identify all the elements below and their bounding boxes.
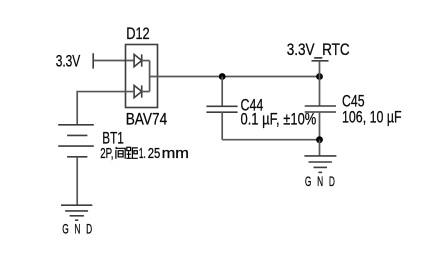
wire main bus to 3.3V_RTC node [150,76,320,78]
label GND (left) [62,222,98,236]
node junction at C45 top [316,73,323,80]
wire bottom bus C44 to C45 [222,139,319,141]
svg-text:BAV74: BAV74 [126,109,168,128]
wire cathode junction vertical [149,61,151,92]
capacitor C44 bottom lead [221,112,223,140]
component box D12 [126,45,158,108]
node junction at C44 top [219,73,226,80]
power port 3.3V bar [92,53,94,68]
capacitor C44 top lead [221,77,223,107]
svg-text:D12: D12 [126,24,150,43]
diode D12-A (top) [134,54,142,66]
wire diode B cathode [142,91,150,93]
power symbol 3.3V_RTC bar [312,60,329,62]
ground symbol (right) [304,156,336,173]
battery BT1 [58,125,94,157]
wire down to ground (right) [319,140,321,156]
wire 3.3V_RTC down to bus [319,61,321,106]
value BT1 pitch suffix [139,145,189,162]
svg-text:25: 25 [148,145,161,162]
svg-text:1.: 1. [139,145,146,162]
svg-text:GND: GND [305,175,341,189]
ground symbol (left) [61,205,92,220]
capacitor C45 plates [305,106,336,112]
svg-text:GND: GND [62,222,98,236]
svg-text:106, 10 µF: 106, 10 µF [342,107,402,126]
diode D12-B (bottom) [134,85,142,97]
CJK glyph jian (间) [116,147,125,159]
svg-text:2P,: 2P, [100,145,113,162]
node junction at C45 bottom [316,136,323,143]
wire battery to D12 pin 3 [77,92,134,125]
capacitor C44 plates [206,106,237,112]
svg-text:3.3V: 3.3V [56,52,81,71]
svg-text:3.3V_RTC: 3.3V_RTC [287,40,350,59]
capacitor C45 bottom lead [319,112,321,140]
CJK glyph ju (距) [126,147,138,158]
label GND (right) [305,175,341,189]
wire 3.3V to D12 pin 1 [93,60,134,62]
wire battery to ground (left) [76,157,78,205]
wire diode A cathode [142,60,150,62]
svg-text:mm: mm [162,145,189,162]
